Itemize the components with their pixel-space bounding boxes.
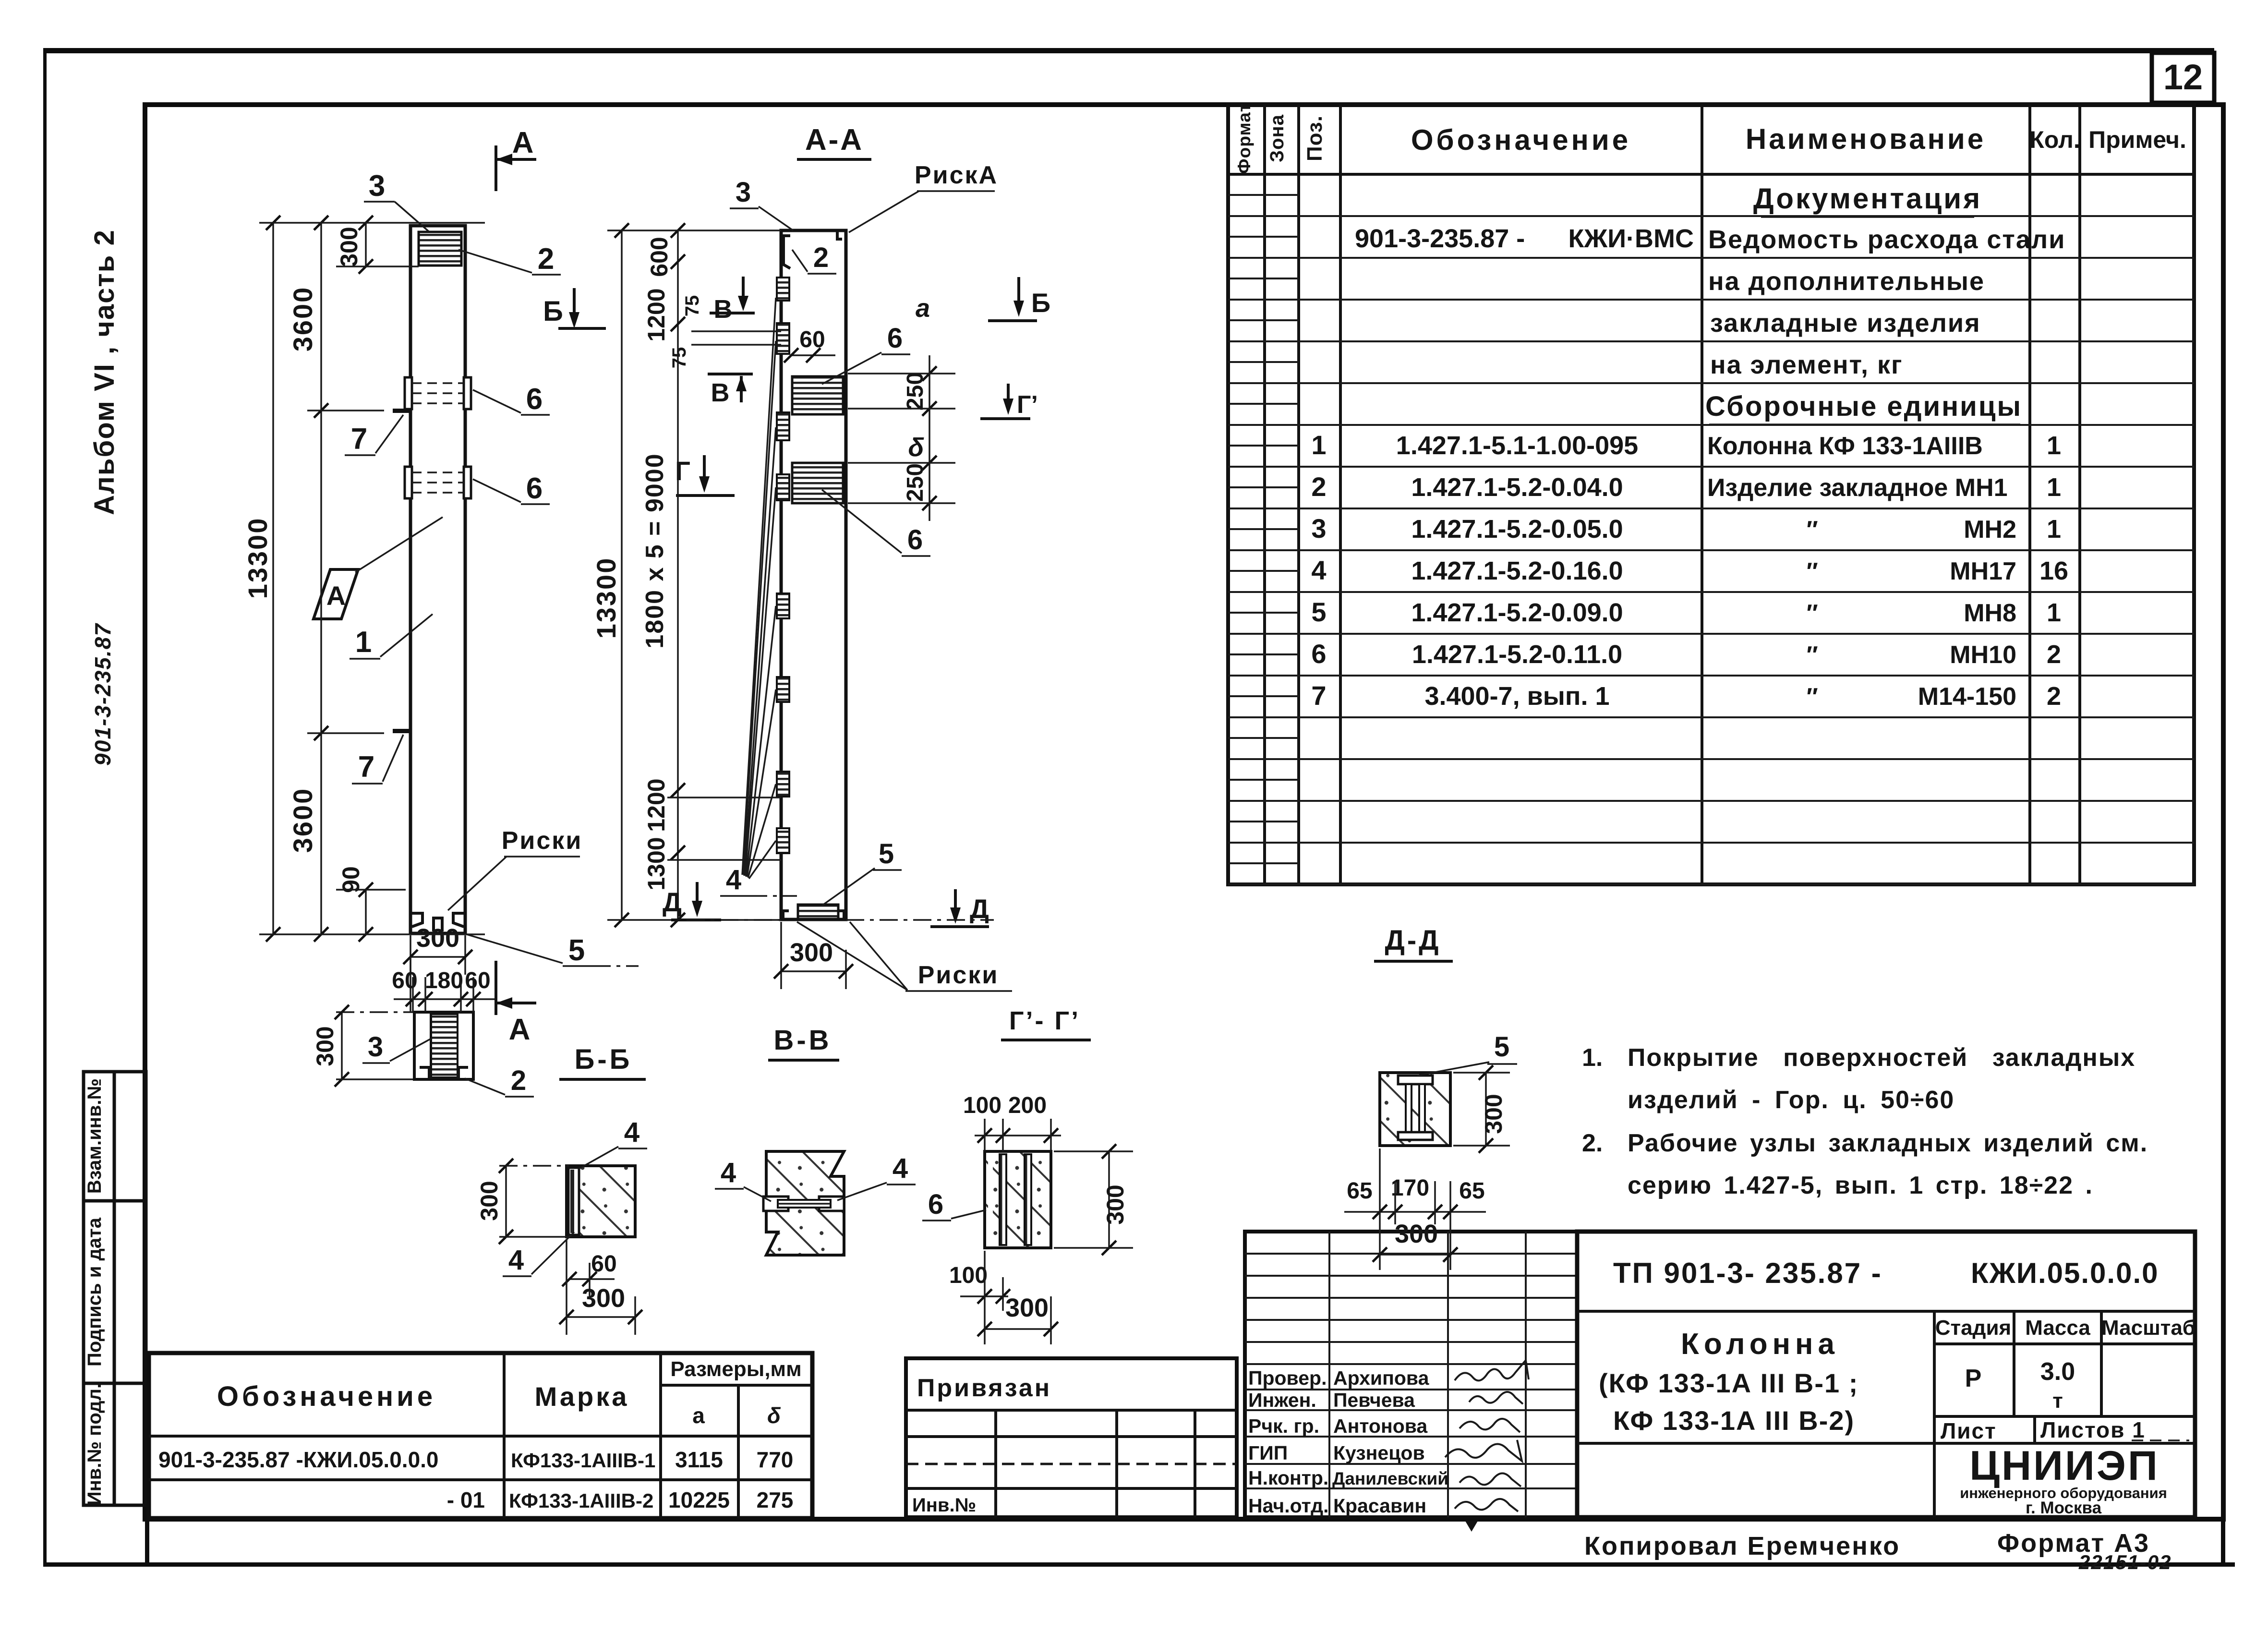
svg-text:А: А [509,1013,531,1046]
svg-text:Марка: Марка [535,1381,629,1412]
svg-text:КЖИ·ВМС: КЖИ·ВМС [1568,224,1694,253]
svg-text:1.427.1-5.2-0.16.0: 1.427.1-5.2-0.16.0 [1411,556,1623,585]
svg-text:100: 100 [963,1093,1001,1118]
spec table row lines [1228,216,2194,884]
svg-text:Копировал Еремченко: Копировал Еремченко [1584,1532,1900,1560]
svg-text:60: 60 [591,1251,616,1277]
svg-text:Рабочие узлы закладных изде: Рабочие узлы закладных изделий см. [1628,1129,2148,1157]
svg-text:10225: 10225 [668,1487,730,1512]
dim 300 right of Г-Г [1108,1151,1110,1248]
svg-text:δ: δ [767,1403,781,1428]
dim 300 above section А [336,1011,413,1013]
section marker Г' (А-А right) [980,384,1038,419]
dim 300 left of section А [312,1005,413,1087]
section marker Б (А-А right) [988,277,1050,321]
svg-text:″: ″ [1805,600,1818,627]
svg-text:65: 65 [1459,1178,1484,1204]
drawing frame border [145,105,2223,1519]
Д-Д section square [1380,1073,1450,1146]
svg-text:770: 770 [757,1447,794,1472]
svg-text:300: 300 [1395,1220,1438,1248]
svg-text:Формат: Формат [1234,103,1254,174]
svg-text:100: 100 [949,1263,988,1288]
svg-text:300: 300 [416,924,459,953]
svg-text:М14-150: М14-150 [1918,683,2016,711]
svg-text:3.400-7, вып. 1: 3.400-7, вып. 1 [1424,682,1609,711]
svg-text:7: 7 [1311,680,1326,711]
extension lines А-А [607,230,781,920]
svg-text:6: 6 [526,472,543,505]
svg-text:600: 600 [646,237,673,277]
svg-text:1: 1 [2047,431,2061,460]
svg-text:901-3-235.87: 901-3-235.87 [90,623,115,766]
column line Наименование [2028,105,2031,884]
frame left border extension to sheet bottom line [145,1517,149,1565]
svg-text:2: 2 [511,1065,526,1096]
anchor clamp item 6 (lower) [405,467,471,498]
svg-text:Рчк. гр.: Рчк. гр. [1248,1415,1319,1437]
svg-text:75: 75 [682,295,703,317]
svg-text:МН8: МН8 [1964,599,2016,627]
svg-text:МН10: МН10 [1950,641,2016,669]
svg-text:16: 16 [2039,556,2068,585]
svg-text:1.427.1-5.1-1.00-095: 1.427.1-5.1-1.00-095 [1396,431,1638,460]
svg-text:Д: Д [663,887,682,917]
item 7 weld tick upper [393,409,412,413]
В-В concrete band [766,1151,844,1255]
column А-А outline [781,230,846,919]
svg-text:5: 5 [1311,597,1326,627]
svg-text:″: ″ [1805,516,1818,543]
svg-text:КФ 133-1А III В-2): КФ 133-1А III В-2) [1613,1405,1855,1436]
svg-text:300: 300 [582,1284,625,1313]
svg-text:4: 4 [726,864,741,895]
svg-text:4: 4 [508,1245,524,1276]
svg-text:Альбом VI , часть 2: Альбом VI , часть 2 [89,229,120,515]
embedded plate МН1 (item 2) hatched, at column top [419,232,461,266]
channel plate at top-left inside [784,236,790,268]
svg-text:1.427.1-5.2-0.04.0: 1.427.1-5.2-0.04.0 [1411,473,1623,502]
svg-text:Наименование: Наименование [1746,123,1986,155]
svg-text:Красавин: Красавин [1333,1495,1426,1517]
svg-text:В: В [711,378,730,407]
svg-text:МН2: МН2 [1964,516,2016,544]
column line Зона [1297,105,1300,884]
svg-text:Р: Р [1965,1365,1982,1392]
leader lines from side plates to item 4 list [742,298,776,879]
header bottom line [1228,173,2194,176]
svg-text:Риски: Риски [502,827,583,855]
svg-text:Взам.инв.№: Взам.инв.№ [84,1078,105,1194]
base corner angles and notch [412,913,422,927]
svg-text:1200: 1200 [643,288,670,341]
svg-text:(КФ 133-1А III В-1 ;: (КФ 133-1А III В-1 ; [1599,1368,1858,1398]
svg-text:Д-Д: Д-Д [1385,925,1441,956]
svg-text:65: 65 [1347,1178,1372,1204]
svg-text:а: а [692,1403,705,1428]
svg-text:3: 3 [1311,513,1326,544]
svg-text:3: 3 [368,1031,383,1063]
section marker А (top) [496,126,536,191]
svg-text:901-3-235.87 -: 901-3-235.87 - [1355,224,1525,253]
extension lines col 1 [259,223,485,934]
svg-text:Нач.отд.: Нач.отд. [1248,1495,1329,1517]
svg-text:закладные изделия: закладные изделия [1710,309,1981,338]
svg-text:275: 275 [757,1487,794,1512]
svg-text:4: 4 [624,1117,639,1148]
dim 300 below А-А column [781,970,846,972]
column line Формат [1263,105,1266,884]
svg-text:7: 7 [358,750,374,784]
svg-text:3600: 3600 [288,286,318,352]
item 7 weld tick lower [393,729,412,733]
svg-text:на элемент, кг: на элемент, кг [1710,351,1903,379]
svg-text:Кол.: Кол. [2029,126,2080,153]
svg-text:3: 3 [369,169,385,203]
left dim line 3600/3600 (col 1) [288,216,328,942]
left dim line 13300 (col 1) [242,216,280,942]
svg-text:1: 1 [1311,430,1326,460]
svg-text:75: 75 [669,347,690,369]
svg-text:Масштаб: Масштаб [2101,1316,2196,1340]
svg-text:В-В: В-В [773,1025,832,1056]
svg-text:300: 300 [1102,1185,1129,1224]
svg-text:В: В [714,295,733,324]
svg-text:″: ″ [1805,558,1818,585]
big embedded plates МН10 (item 6) [792,376,843,414]
svg-text:Инв.№ подл.: Инв.№ подл. [84,1383,105,1505]
svg-text:Документация: Документация [1753,182,1982,215]
svg-text:Певчева: Певчева [1333,1389,1415,1411]
Д-Д I-beam plates [1398,1076,1433,1084]
svg-text:3.0: 3.0 [2040,1358,2075,1386]
svg-text:т: т [2052,1389,2063,1413]
svg-text:Зона: Зона [1267,114,1288,162]
svg-text:Примеч.: Примеч. [2088,126,2186,153]
svg-text:Данилевский: Данилевский [1332,1469,1448,1488]
dim 300 at col top [336,216,419,274]
svg-text:1800 x 5 = 9000: 1800 x 5 = 9000 [641,453,669,648]
svg-text:2: 2 [2047,640,2061,669]
svg-text:2: 2 [1311,471,1326,502]
svg-text:Масса: Масса [2025,1316,2090,1340]
svg-text:2: 2 [2047,682,2061,711]
svg-text:6: 6 [907,524,923,556]
svg-text:Изделие закладное МН1: Изделие закладное МН1 [1707,474,2008,502]
dim 300 under column base [410,956,465,958]
frame right border extension to sheet bottom line [2221,1517,2225,1565]
svg-text:1: 1 [2047,473,2061,502]
svg-text:4: 4 [1311,555,1326,585]
svg-text:а: а [916,294,930,323]
svg-text:12: 12 [2163,57,2203,97]
dim 300 left of Б-Б [505,1166,507,1237]
spec table fine grid in Формат/Зона columns [1228,195,1299,863]
svg-text:1200: 1200 [643,778,670,832]
svg-text:300: 300 [336,227,362,266]
svg-text:Б: Б [543,296,563,327]
svg-text:Риски: Риски [918,961,999,989]
svg-text:Покрытие поверхностей з: Покрытие поверхностей закладных [1628,1044,2135,1072]
base corner notches А-А [783,911,789,919]
svg-text:1.427.1-5.2-0.05.0: 1.427.1-5.2-0.05.0 [1411,515,1623,544]
bottom margin texts [1465,1521,1478,1532]
Д markers bottom [663,882,989,927]
svg-text:Колонна: Колонна [1681,1328,1839,1361]
margin stamp strip: Взам.инв.№ box [84,1072,114,1201]
svg-text:6: 6 [1311,639,1326,669]
margin stamp strip: Инв.№ подл. box [84,1383,114,1505]
svg-text:3115: 3115 [675,1447,723,1472]
svg-text:1.427.1-5.2-0.11.0: 1.427.1-5.2-0.11.0 [1412,640,1622,669]
svg-text:6: 6 [526,383,543,416]
svg-text:КФ133-1АIIIВ-2: КФ133-1АIIIВ-2 [509,1489,653,1512]
svg-text:″: ″ [1805,683,1818,710]
svg-text:4: 4 [893,1153,908,1184]
svg-text:Привязан: Привязан [917,1374,1051,1402]
left dim line 600/1200/1800x5=9000/1200/1300 (А-А) [641,223,685,927]
svg-text:Ведомость расхода стали: Ведомость расхода стали [1708,225,2065,254]
svg-text:300: 300 [312,1026,338,1066]
Г-Г vertical plates [1000,1154,1006,1245]
svg-text:250: 250 [903,463,928,502]
svg-text:1: 1 [355,626,372,659]
svg-text:А: А [326,580,346,611]
svg-text:Размеры,мм: Размеры,мм [670,1357,801,1381]
margin stamp strip: Подпись и дата box [84,1201,114,1383]
svg-text:1300: 1300 [643,837,670,890]
dim 300 right of Д-Д [1485,1073,1487,1146]
dim 60 180 60 [392,968,495,1012]
section А square [414,1012,473,1079]
svg-text:Б: Б [1031,288,1050,318]
svg-text:- 01: - 01 [447,1487,485,1512]
svg-text:Сборочные единицы: Сборочные единицы [1705,391,2022,422]
dim 90 at col bottom [336,866,406,942]
svg-text:1: 1 [2047,515,2061,544]
column 1 outline [410,226,465,933]
svg-text:Обозначение: Обозначение [217,1381,436,1412]
svg-text:Архипова: Архипова [1333,1367,1430,1389]
svg-text:Лист: Лист [1941,1418,1997,1443]
svg-text:200: 200 [1008,1093,1047,1118]
svg-text:4: 4 [721,1157,736,1188]
svg-text:Кузнецов: Кузнецов [1333,1442,1425,1464]
Г-Г section square [985,1151,1051,1248]
anchor clamp item 6 (upper) [405,377,471,409]
svg-text:22151-02: 22151-02 [2078,1551,2172,1573]
view mark А rhombus [314,517,443,619]
svg-text:Н.контр.: Н.контр. [1248,1467,1328,1489]
svg-text:δ: δ [908,433,925,462]
svg-text:РискА: РискА [915,161,998,189]
left dim line 13300 (А-А) [591,223,629,927]
svg-text:на дополнительные: на дополнительные [1708,267,1985,296]
svg-text:Обозначение: Обозначение [1411,124,1631,156]
svg-text:ГИП: ГИП [1248,1442,1288,1464]
svg-text:3600: 3600 [288,787,318,853]
svg-text:250: 250 [903,372,928,411]
svg-text:6: 6 [887,323,903,354]
column line Поз [1339,105,1342,884]
bottom dash-dot axis [687,919,781,921]
svg-text:1.: 1. [1582,1044,1603,1072]
svg-text:7: 7 [351,423,367,456]
page number box "12" [2152,53,2214,103]
svg-text:Подпись и дата: Подпись и дата [84,1217,105,1366]
base plate МН8 (item 5) [798,905,838,919]
svg-text:Г’: Г’ [1017,391,1038,419]
svg-text:А-А: А-А [805,123,864,157]
svg-text:МН17: МН17 [1950,557,2016,585]
side embedded plates МН17 on left face [777,278,789,853]
svg-text:Г’- Г’: Г’- Г’ [1009,1006,1080,1035]
svg-text:180: 180 [425,968,463,993]
svg-text:60: 60 [465,968,490,993]
svg-text:″: ″ [1805,641,1818,668]
svg-text:2: 2 [538,242,554,276]
table outer border [1228,105,2194,884]
svg-text:1.427.1-5.2-0.09.0: 1.427.1-5.2-0.09.0 [1411,598,1623,627]
svg-text:300: 300 [1480,1094,1507,1134]
svg-text:901-3-235.87 -КЖИ.05.0.0.0: 901-3-235.87 -КЖИ.05.0.0.0 [158,1447,439,1472]
svg-text:300: 300 [476,1181,503,1221]
svg-text:300: 300 [1005,1293,1049,1322]
sheet outer left edge line [43,48,47,1566]
svg-text:5: 5 [879,838,894,870]
sheet outer bottom edge line [43,1562,2235,1567]
В markers with 75/75 plate dims [669,277,781,407]
svg-text:КЖИ.05.0.0.0: КЖИ.05.0.0.0 [1971,1257,2159,1289]
dim 300 below Б-Б [567,1316,635,1318]
plate strip left in Б-Б [568,1168,579,1235]
section Б-Б square (concrete) [567,1166,635,1237]
section marker Б (left view) [543,288,606,328]
svg-text:изделий - Гор. ц. 50÷60: изделий - Гор. ц. 50÷60 [1628,1086,1954,1114]
svg-text:2.: 2. [1582,1129,1603,1157]
column line Обозначение [1701,105,1703,884]
svg-text:Инжен.: Инжен. [1248,1389,1316,1411]
svg-text:13300: 13300 [242,517,273,599]
svg-text:Провер.: Провер. [1248,1367,1327,1389]
svg-text:Колонна КФ 133-1АIIIВ: Колонна КФ 133-1АIIIВ [1707,432,1983,460]
svg-text:Листов 1: Листов 1 [2040,1417,2146,1442]
svg-text:13300: 13300 [591,557,621,639]
svg-text:А: А [512,126,534,159]
svg-text:5: 5 [568,934,585,967]
column line Кол [2078,105,2081,884]
handwritten signatures [1445,1360,1529,1511]
svg-text:5: 5 [1494,1031,1509,1063]
svg-text:Поз.: Поз. [1303,115,1327,161]
svg-text:Б-Б: Б-Б [575,1044,633,1075]
svg-text:2: 2 [813,242,829,273]
sheet outer top edge line [45,48,2214,53]
В-В middle plates [763,1197,788,1211]
right dim line 250/250 [848,355,955,521]
section marker Г (left of А-А) [675,455,735,496]
svg-text:ТП 901-3- 235.87 -: ТП 901-3- 235.87 - [1613,1257,1882,1289]
svg-text:КФ133-1АIIIВ-1: КФ133-1АIIIВ-1 [511,1449,655,1472]
svg-text:Антонова: Антонова [1333,1415,1428,1437]
riska notch at А-А column top right [837,231,842,239]
svg-text:серию 1.427-5, вып. 1 стр.: серию 1.427-5, вып. 1 стр. 18÷22 . [1628,1172,2093,1199]
svg-text:170: 170 [1391,1175,1429,1201]
svg-text:60: 60 [799,327,825,352]
svg-text:ЦНИИЭП: ЦНИИЭП [1969,1443,2159,1489]
svg-text:г. Москва: г. Москва [2026,1499,2102,1517]
svg-text:3: 3 [736,177,751,208]
dim 60 below Б-Б [569,1278,615,1280]
svg-text:Стадия: Стадия [1935,1316,2011,1340]
svg-text:1: 1 [2047,598,2061,627]
svg-text:6: 6 [928,1189,943,1220]
svg-text:300: 300 [790,938,833,967]
section marker А (bottom) [496,961,536,1046]
svg-text:Инв.№: Инв.№ [912,1495,976,1516]
